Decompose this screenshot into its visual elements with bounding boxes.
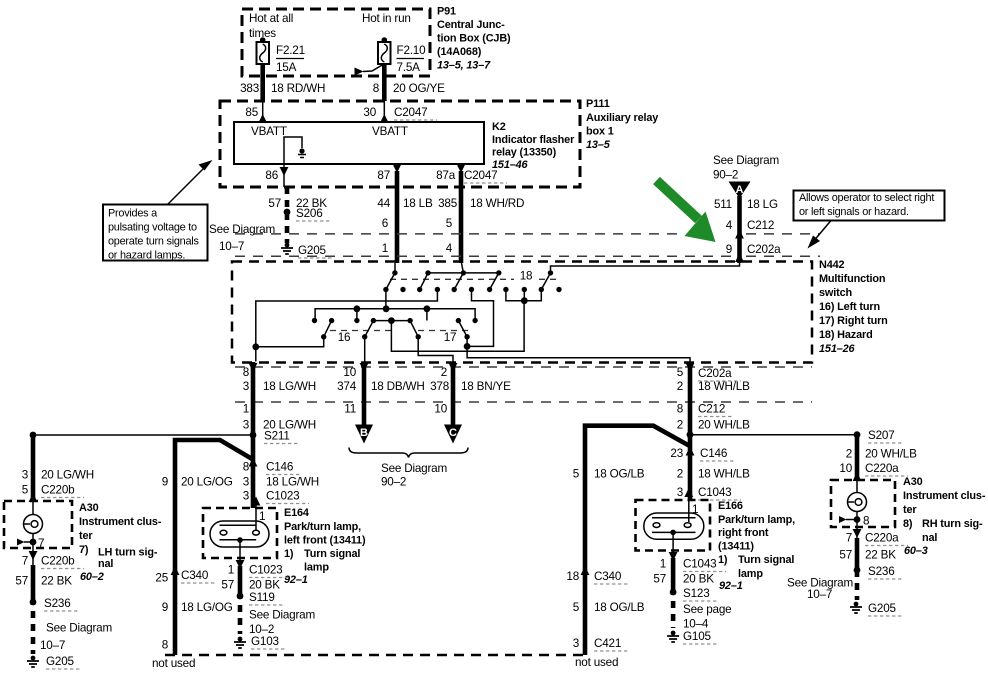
svg-text:F2.10: F2.10 [397, 44, 427, 57]
connector C421 dashed line bottom [165, 654, 588, 657]
svg-text:9: 9 [162, 601, 168, 614]
hazard pole 5 arm [539, 270, 554, 292]
svg-text:17: 17 [444, 331, 457, 344]
off-page triangle A [729, 182, 751, 199]
svg-text:operate turn signals: operate turn signals [108, 236, 199, 248]
svg-text:See Diagram: See Diagram [249, 609, 315, 622]
svg-text:86: 86 [265, 169, 278, 182]
connector C2047 label top [394, 106, 437, 120]
hazard switch 18 label [520, 270, 533, 283]
svg-text:18 DB/WH: 18 DB/WH [371, 380, 425, 393]
svg-text:5: 5 [677, 366, 684, 379]
switch 16 label [338, 331, 351, 344]
svg-text:C202a: C202a [747, 243, 781, 256]
connector C202a label bottom [698, 367, 741, 381]
svg-text:8: 8 [162, 639, 168, 652]
hazard pole 4 arm [487, 270, 502, 292]
svg-text:Hot in run: Hot in run [362, 12, 411, 25]
svg-text:S236: S236 [44, 597, 71, 610]
svg-text:20 OG/YE: 20 OG/YE [393, 82, 445, 95]
svg-text:C202a: C202a [698, 367, 732, 380]
svg-text:20 WH/LB: 20 WH/LB [865, 448, 917, 461]
svg-text:1: 1 [228, 564, 234, 577]
wire N442 pin 4 stub to hazard pole 3 [462, 263, 464, 273]
svg-text:22 BK: 22 BK [865, 549, 896, 562]
label not used right [575, 656, 618, 669]
splice S206 [284, 207, 332, 221]
label 2 20 WH/LB [846, 448, 917, 461]
svg-text:10–7: 10–7 [807, 588, 832, 601]
pin 86 stub [280, 164, 289, 187]
svg-text:Instrument clus-: Instrument clus- [903, 490, 986, 502]
svg-text:2: 2 [846, 448, 852, 461]
label See Diagram 90-2 top right [713, 154, 779, 182]
svg-text:5: 5 [446, 217, 453, 230]
wire 383 18 RD/WH fuse F2.21 to relay pin 85 [258, 64, 267, 123]
wire switch 16 pole 2 lower to exit pin 10 [364, 337, 366, 362]
wire 511 18 LG triangle A down to N442 pin 9 [735, 196, 744, 263]
svg-text:11: 11 [344, 403, 356, 416]
brace under triangles B and C [349, 448, 468, 458]
P91 Central Junction Box dashed enclosure [242, 9, 430, 76]
P111 Auxiliary relay box dashed enclosure [220, 101, 580, 187]
svg-text:511: 511 [714, 198, 732, 211]
wire switch 16-17 upper tie [373, 317, 410, 324]
wire 20 LG/OG branch elbow from main [175, 440, 253, 655]
switch 17 pole 2 arm [456, 318, 470, 340]
svg-text:1: 1 [660, 558, 666, 571]
svg-text:18 LG/WH: 18 LG/WH [266, 476, 319, 489]
pin labels 86 87 87a C2047 [265, 169, 507, 183]
VBATT pin 30 label [372, 125, 408, 138]
hazard top tie wire poles 2-3-4 [428, 272, 499, 274]
svg-text:VBATT: VBATT [251, 125, 287, 138]
svg-text:383: 383 [240, 82, 259, 95]
svg-text:8: 8 [243, 366, 249, 379]
svg-text:3: 3 [243, 476, 249, 489]
label 5 C220b [22, 484, 84, 498]
svg-text:30: 30 [363, 106, 376, 119]
svg-text:ter: ter [903, 504, 917, 516]
svg-text:A30: A30 [79, 502, 99, 514]
svg-text:P111: P111 [586, 98, 610, 110]
label 3 C421 [573, 637, 628, 651]
svg-text:See Diagram: See Diagram [381, 462, 447, 475]
svg-text:left front (13411): left front (13411) [284, 535, 366, 547]
E164 lamp symbol [210, 501, 269, 547]
svg-text:N442: N442 [819, 259, 845, 271]
svg-text:S236: S236 [868, 565, 895, 578]
E166 pin 1 label [692, 503, 698, 516]
labels on 374 wire [337, 366, 425, 416]
svg-text:K2: K2 [492, 121, 506, 133]
svg-text:G205: G205 [46, 655, 74, 668]
labels on 378 wire [430, 366, 511, 416]
svg-text:18 LB: 18 LB [403, 197, 433, 210]
svg-text:See page: See page [683, 603, 731, 616]
svg-text:18 LG: 18 LG [747, 198, 778, 211]
relay K2 box [234, 122, 484, 164]
wire tie drop to hazard U junction [391, 301, 524, 352]
svg-text:C220b: C220b [41, 555, 75, 568]
svg-text:tion Box (CJB): tion Box (CJB) [437, 33, 511, 45]
svg-text:See Diagram: See Diagram [713, 154, 779, 167]
svg-text:57: 57 [15, 575, 28, 588]
svg-text:8): 8) [903, 518, 913, 530]
labels 1 C1043 57 20 BK [653, 558, 726, 586]
svg-text:S119: S119 [249, 591, 275, 604]
svg-text:C146: C146 [266, 461, 293, 474]
svg-text:relay (13350): relay (13350) [492, 147, 557, 159]
wire 2 18 WH/LB exit pin 5 down to E166 [686, 362, 695, 500]
svg-text:switch: switch [819, 287, 852, 299]
wire 57 20 BK E166 to ground [671, 558, 676, 628]
connector C212 label bottom [698, 403, 733, 417]
splice S236 left [30, 597, 78, 611]
svg-text:20 BK: 20 BK [683, 573, 714, 586]
connector C202a dashed line below N442 [235, 366, 812, 368]
svg-text:Provides a: Provides a [108, 208, 158, 220]
wire hazard U link fixed 506 to pole 5 lower [506, 290, 541, 305]
svg-text:Turn signal: Turn signal [738, 554, 794, 566]
svg-text:C212: C212 [747, 219, 774, 232]
S211 junction and wire to left instrument cluster [30, 430, 298, 444]
svg-text:10–7: 10–7 [40, 639, 65, 652]
svg-text:18 WH/LB: 18 WH/LB [698, 468, 750, 481]
svg-text:C2047: C2047 [394, 106, 427, 119]
E166 entry arrow [684, 488, 693, 497]
P111 text block [586, 98, 658, 151]
svg-text:7.5A: 7.5A [397, 61, 421, 74]
ground G205 top left [281, 243, 334, 258]
svg-text:C1043: C1043 [698, 486, 731, 499]
svg-text:23: 23 [670, 447, 683, 460]
hazard pole 3 arm [452, 270, 467, 292]
svg-text:17) Right turn: 17) Right turn [819, 315, 888, 327]
svg-text:G105: G105 [683, 630, 711, 643]
svg-text:G205: G205 [298, 244, 326, 257]
hazard switch gang dashed line [390, 278, 556, 280]
svg-text:C220a: C220a [865, 462, 899, 475]
svg-text:18: 18 [520, 270, 533, 283]
splice S207 wire to right instrument cluster [690, 429, 902, 443]
label Hot in run [362, 12, 411, 25]
svg-text:Indicator flasher: Indicator flasher [492, 134, 575, 146]
svg-text:Park/turn lamp,: Park/turn lamp, [284, 521, 361, 533]
svg-text:RH turn sig-: RH turn sig- [922, 518, 983, 530]
svg-text:not used: not used [152, 657, 195, 670]
connector C340 right label [566, 566, 629, 584]
svg-text:57: 57 [221, 579, 234, 592]
E166 park/turn lamp right front dashed box [636, 500, 711, 551]
svg-text:C220a: C220a [865, 532, 899, 545]
svg-text:(14A068): (14A068) [437, 46, 482, 58]
svg-text:4: 4 [446, 242, 453, 255]
svg-text:C: C [449, 427, 457, 439]
svg-text:10–7: 10–7 [219, 240, 244, 253]
svg-text:See Diagram: See Diagram [46, 622, 112, 635]
svg-text:90–2: 90–2 [713, 169, 738, 182]
E164 text block [284, 507, 366, 586]
svg-text:44: 44 [377, 197, 390, 210]
svg-text:13–5: 13–5 [586, 139, 611, 151]
svg-text:C220b: C220b [41, 484, 75, 497]
switch 16 pole 2 arm [362, 318, 376, 340]
svg-text:3: 3 [22, 469, 28, 482]
svg-text:15A: 15A [276, 61, 297, 74]
label 10 C220a [839, 462, 908, 476]
svg-text:6: 6 [382, 217, 388, 230]
switch 17 gang dashed line [418, 330, 470, 332]
pin 85 label [245, 106, 258, 119]
note box 2 arrow [808, 221, 832, 249]
svg-text:57: 57 [653, 573, 666, 586]
connector C212 dashed line lower [235, 401, 812, 403]
K2 text block [492, 121, 575, 171]
label 9 20 LG/OG [162, 476, 233, 489]
label See Diagram 10-7 left [209, 223, 275, 253]
svg-text:18 LG/WH: 18 LG/WH [263, 380, 316, 393]
svg-text:lamp: lamp [304, 562, 329, 574]
svg-text:1: 1 [382, 242, 388, 255]
wire N442 pin 1 stub to hazard pole 1 [394, 263, 396, 273]
svg-text:nal: nal [922, 532, 937, 544]
svg-text:13–5, 13–7: 13–5, 13–7 [437, 60, 491, 72]
svg-text:or hazard lamps.: or hazard lamps. [108, 250, 185, 262]
svg-text:C421: C421 [594, 637, 621, 650]
svg-text:5: 5 [573, 468, 580, 481]
svg-text:60–3: 60–3 [904, 545, 928, 557]
labels on right exit wire [677, 366, 750, 432]
svg-text:20 BK: 20 BK [249, 579, 280, 592]
label 44 18 LB [377, 197, 433, 210]
svg-text:20 WH/LB: 20 WH/LB [698, 419, 750, 432]
connector C202a in-line dashed crossing line [235, 255, 820, 257]
svg-text:10: 10 [343, 366, 356, 379]
svg-text:8: 8 [677, 403, 683, 416]
label 3 C1023 [243, 490, 309, 504]
svg-text:8: 8 [863, 515, 869, 528]
label 3 20 LG/WH [22, 469, 94, 482]
labels on left exit wire [243, 366, 316, 432]
svg-text:3: 3 [243, 419, 249, 432]
svg-text:18) Hazard: 18) Hazard [819, 329, 873, 341]
N442 text block [819, 259, 888, 355]
label 8 C146 left [243, 461, 300, 475]
fuse F2.21 15A [257, 37, 305, 74]
svg-text:1): 1) [284, 548, 294, 560]
svg-text:22 BK: 22 BK [296, 197, 327, 210]
svg-text:G205: G205 [868, 602, 896, 615]
svg-text:9: 9 [726, 243, 732, 256]
svg-text:8: 8 [243, 461, 249, 474]
pin labels 5 and 4 on 18 WH/RD wire [446, 217, 453, 255]
svg-text:A30: A30 [903, 476, 923, 488]
off-page triangle B [355, 425, 373, 444]
green highlight arrow [657, 181, 716, 243]
svg-text:87: 87 [377, 169, 390, 182]
wire switch 17 pole 1 lower to exit pin 2 [418, 337, 453, 362]
label 9 18 LG/OG [162, 601, 233, 614]
svg-text:378: 378 [430, 380, 449, 393]
pin 87 stub [393, 164, 402, 173]
svg-text:C212: C212 [698, 403, 725, 416]
svg-text:92–1: 92–1 [719, 580, 743, 592]
label 8 20 OG/YE [373, 82, 445, 95]
switch 16 fixed contacts from bus2 [312, 318, 360, 323]
svg-text:20 LG/WH: 20 LG/WH [41, 469, 94, 482]
label 23 C146 [670, 447, 734, 461]
wire 18 OG/LB branch elbow to right exit wire [585, 426, 690, 655]
svg-text:C1023: C1023 [249, 564, 282, 577]
svg-text:E164: E164 [284, 507, 309, 519]
svg-text:18: 18 [566, 570, 579, 583]
svg-text:2: 2 [677, 468, 683, 481]
label 385 18 WH/RD [438, 197, 524, 210]
label See Diagram 90-2 bottom [381, 462, 447, 489]
label See Diagram 10-2 [249, 609, 315, 637]
E164 pin 1 label [259, 510, 265, 523]
svg-text:Park/turn lamp,: Park/turn lamp, [718, 514, 795, 526]
labels 7 C220b 57 22 BK [15, 555, 84, 588]
svg-text:VBATT: VBATT [372, 125, 408, 138]
wire 44 18 LB relay pin 87 down to N442 pin 1 [395, 171, 400, 263]
wire 374 18 DB/WH exit pin 10 to triangle B [360, 362, 369, 425]
switch 16 gang dashed line [330, 330, 395, 332]
svg-text:E166: E166 [718, 500, 743, 512]
VBATT pin 85 label [251, 125, 287, 138]
svg-text:nal: nal [98, 558, 113, 570]
label 383 18 RD/WH [240, 82, 325, 95]
svg-text:2: 2 [677, 380, 683, 393]
svg-text:92–1: 92–1 [284, 574, 308, 586]
svg-text:Allows operator to select righ: Allows operator to select right [799, 192, 934, 204]
svg-text:87a: 87a [436, 169, 456, 182]
svg-text:G103: G103 [251, 635, 279, 648]
svg-text:16) Left turn: 16) Left turn [819, 301, 880, 313]
junction dot to S207 [687, 431, 694, 438]
svg-text:1): 1) [718, 554, 728, 566]
svg-text:B: B [360, 427, 368, 439]
svg-text:ter: ter [79, 530, 93, 542]
labels 1 C1023 57 20 BK [221, 564, 292, 592]
splice S119 [237, 591, 283, 605]
svg-text:C146: C146 [700, 447, 727, 460]
svg-text:90–2: 90–2 [381, 476, 406, 489]
ground G205 right [850, 602, 903, 616]
label 3 C1043 [677, 486, 741, 500]
arrow from fuse F2.10 pointing left [355, 64, 385, 76]
svg-text:7): 7) [79, 544, 89, 556]
wire 57 22 BK relay pin 86 to ground (dashed) [285, 187, 290, 243]
svg-text:1: 1 [243, 403, 249, 416]
wire 378 18 BN/YE exit pin 2 to triangle C [449, 362, 458, 425]
svg-text:18 OG/LB: 18 OG/LB [594, 468, 645, 481]
A30 right instrument cluster dashed box [831, 480, 895, 527]
svg-text:3: 3 [573, 637, 579, 650]
switch 17 fixed contact dot [472, 318, 477, 323]
off-page triangle C [444, 425, 462, 444]
wire 3 20 LG/WH S211 to left instrument cluster [29, 435, 38, 502]
svg-text:10: 10 [434, 403, 447, 416]
svg-text:box 1: box 1 [586, 126, 614, 138]
hazard pole 2 arm [417, 270, 431, 292]
svg-text:S207: S207 [868, 429, 895, 442]
A30 left instrument cluster dashed box [4, 501, 72, 548]
E166 exit wire to C1043 [669, 532, 678, 561]
svg-text:16: 16 [338, 331, 351, 344]
svg-text:Turn signal: Turn signal [304, 548, 360, 560]
svg-text:7: 7 [38, 537, 44, 550]
svg-text:22 BK: 22 BK [41, 575, 72, 588]
E164 park/turn lamp left front dashed box [203, 508, 277, 558]
svg-text:C1023: C1023 [266, 490, 299, 503]
fuse F2.10 7.5A [378, 37, 426, 74]
label 5 18 OG/LB upper [573, 468, 645, 481]
E164 exit wire to C1023 [236, 540, 245, 569]
ground G205 bottom left [27, 655, 81, 669]
wire 57 22 BK right cluster to ground [853, 527, 862, 600]
svg-text:Instrument clus-: Instrument clus- [79, 516, 162, 528]
svg-text:10: 10 [839, 462, 852, 475]
svg-text:S123: S123 [683, 587, 710, 600]
svg-text:S211: S211 [264, 430, 290, 443]
label See Diagram 10-7 right [787, 577, 853, 602]
svg-text:Multifunction: Multifunction [819, 273, 885, 285]
pin labels 6 and 1 on 18 LB wire [382, 217, 388, 255]
svg-text:3: 3 [243, 490, 249, 503]
svg-text:9: 9 [162, 476, 168, 489]
svg-text:P91: P91 [437, 6, 456, 18]
label Hot at all times [249, 12, 293, 40]
note box: provides a pulsating voltage [103, 205, 208, 262]
connector C212 in-line dashed crossing line [235, 233, 820, 235]
svg-text:18 RD/WH: 18 RD/WH [271, 82, 325, 95]
label 5 18 OG/LB lower [573, 601, 645, 614]
svg-text:85: 85 [245, 106, 258, 119]
pin 87a stub [457, 164, 466, 173]
switch 16 pole 1 arm [321, 318, 334, 340]
wire hazard pole 5 top to pin 9 [551, 262, 740, 273]
ground G105 [667, 630, 718, 644]
svg-text:A: A [736, 184, 744, 196]
A30 left lamp symbol LH turn indicator [24, 501, 43, 548]
P91 text block [437, 6, 511, 72]
svg-text:C2047: C2047 [464, 169, 497, 182]
svg-text:18 WH/LB: 18 WH/LB [698, 380, 750, 393]
svg-text:C340: C340 [594, 570, 622, 583]
svg-text:(13411): (13411) [718, 541, 754, 553]
switch 17 label [444, 331, 457, 344]
wire switch 16 pole 1 lower to exit pin 8 [252, 337, 323, 350]
A30 right lamp symbol RH turn indicator [848, 480, 867, 527]
A30 left text block [79, 502, 162, 583]
svg-text:3: 3 [243, 380, 249, 393]
hazard pole 1 arm [383, 270, 397, 292]
svg-text:18 OG/LB: 18 OG/LB [594, 601, 645, 614]
label 3 18 LG/WH lower [243, 476, 319, 489]
svg-text:151–26: 151–26 [819, 343, 856, 355]
splice S123 [670, 587, 717, 601]
svg-text:F2.21: F2.21 [276, 44, 305, 57]
label See Diagram 10-7 bottom left [40, 622, 112, 653]
svg-text:Hot at all: Hot at all [249, 12, 293, 25]
svg-text:Central Junc-: Central Junc- [437, 19, 505, 31]
label 511 18 LG [714, 198, 778, 211]
svg-text:LH turn sig-: LH turn sig- [98, 547, 158, 559]
svg-text:5: 5 [22, 484, 29, 497]
hazard fixed contact dots [400, 287, 561, 292]
